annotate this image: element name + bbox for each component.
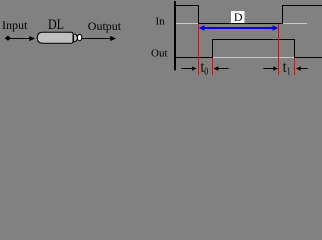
In low segment — [198, 23, 283, 24]
blue arrowhead right — [273, 25, 279, 31]
In rising edge — [282, 5, 283, 24]
svg-text:1: 1 — [287, 66, 290, 78]
t0 arrow right (points left) — [214, 66, 219, 70]
axis vertical line — [174, 1, 176, 70]
arrowhead into DL — [29, 36, 35, 41]
svg-text:0: 0 — [204, 66, 208, 78]
svg-text:Output: Output — [88, 19, 122, 33]
Out high segment — [212, 39, 295, 40]
In waveform high segment right — [282, 5, 322, 6]
svg-text:DL: DL — [48, 17, 64, 33]
Out falling edge — [294, 39, 295, 58]
Out low segment left — [176, 57, 213, 58]
blue arrowhead left — [199, 25, 205, 31]
svg-text:D: D — [234, 10, 243, 24]
Out rising edge — [212, 39, 213, 58]
red marker tick at Out fall — [294, 58, 295, 75]
inversion bubble — [77, 34, 81, 40]
arrowhead output — [110, 36, 116, 41]
svg-text:In: In — [156, 16, 166, 28]
delay line DL right cone — [74, 34, 78, 42]
red marker tick at Out rise — [212, 58, 213, 75]
red marker line at D right — [278, 24, 279, 75]
red marker line at In fall — [198, 24, 199, 75]
Out low segment right — [294, 57, 322, 58]
node Input diamond — [5, 36, 11, 41]
In low reference line right (gray) — [282, 23, 307, 24]
t1 arrow right (points left) — [296, 66, 301, 70]
Out low reference line (gray) — [213, 57, 294, 58]
In waveform high segment left — [176, 5, 199, 6]
D label box — [231, 11, 245, 23]
wire DL to output — [82, 38, 111, 39]
wire input to DL — [10, 38, 30, 39]
blue delay arrow shaft — [202, 27, 275, 29]
In falling edge — [198, 5, 199, 24]
svg-text:Out: Out — [151, 48, 168, 60]
svg-text:Input: Input — [2, 18, 28, 32]
In low reference line left (gray) — [176, 23, 198, 24]
delay line DL body — [37, 32, 73, 43]
t1 arrow left (points right) — [263, 68, 274, 69]
t0 arrow left (points right) — [181, 68, 193, 69]
